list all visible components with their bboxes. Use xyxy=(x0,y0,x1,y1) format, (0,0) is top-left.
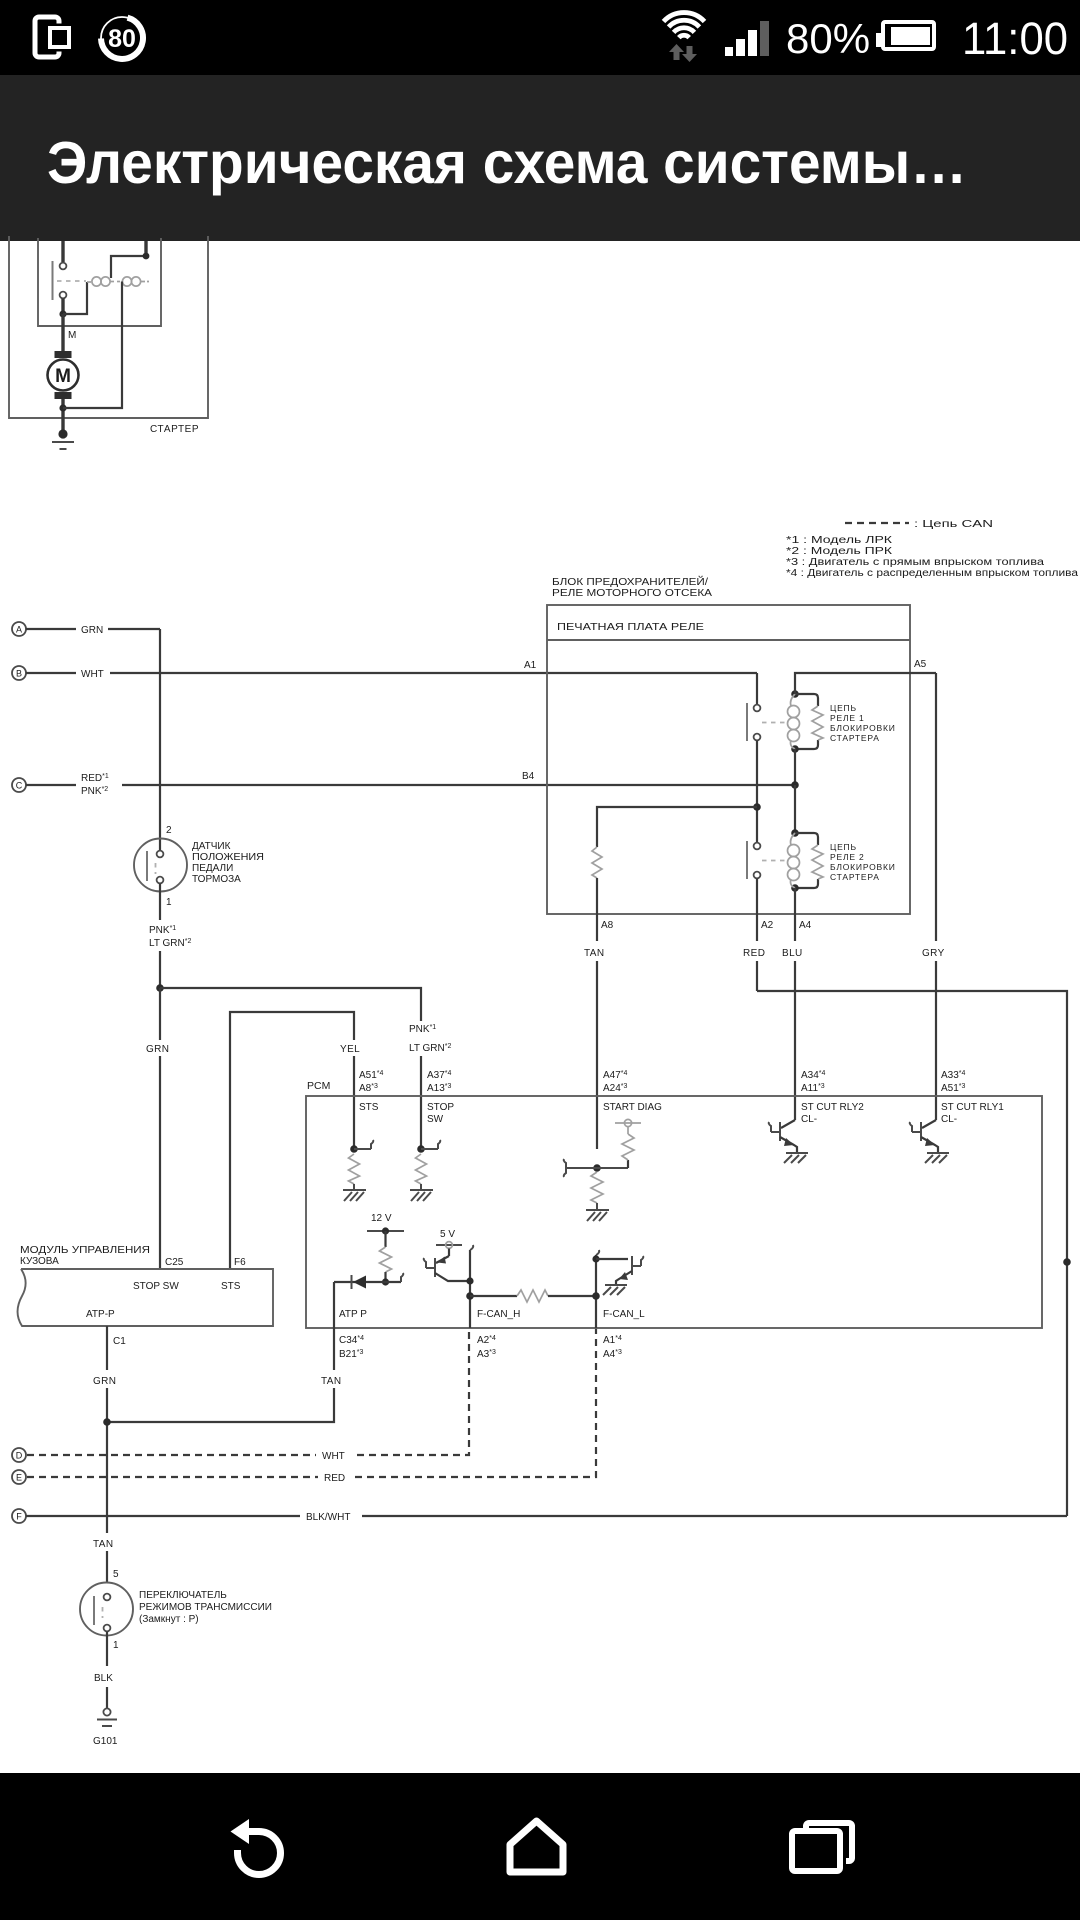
wire RED from A2 xyxy=(756,914,758,941)
range switch label xyxy=(139,1590,272,1625)
starter motor M xyxy=(48,351,79,399)
svg-text:*3 : Двигатель с прямым впрыск: *3 : Двигатель с прямым впрыском топлива xyxy=(786,557,1045,568)
svg-text:RED: RED xyxy=(324,1473,345,1484)
status icon: wifi with arrows xyxy=(664,13,705,38)
wire brake switch out xyxy=(159,884,161,921)
svg-text:5 V: 5 V xyxy=(440,1229,455,1240)
title bar background xyxy=(0,75,1080,241)
connector F xyxy=(12,1509,26,1523)
svg-text:C1: C1 xyxy=(113,1336,126,1347)
svg-text:A4: A4 xyxy=(799,920,812,931)
svg-text:STOP SW: STOP SW xyxy=(133,1281,179,1292)
status bar background xyxy=(0,0,1080,75)
solenoid hold-in coil xyxy=(117,277,149,286)
connector E xyxy=(12,1470,26,1484)
solenoid pull-in coil xyxy=(87,277,114,286)
svg-text:80%: 80% xyxy=(786,15,870,62)
node solenoid output xyxy=(59,310,66,317)
ST CUT RLY2 driver transistor xyxy=(769,1120,808,1163)
nav icon: home xyxy=(510,1821,563,1872)
CAN termination resistor xyxy=(470,1295,517,1297)
node on RED/BLKWHT riser xyxy=(1063,1258,1071,1266)
ground G101 xyxy=(97,1708,117,1726)
svg-text:E: E xyxy=(16,1473,22,1483)
wire TAN from A8 xyxy=(596,914,598,941)
svg-text:WHT: WHT xyxy=(322,1451,345,1462)
svg-text:B: B xyxy=(16,669,22,679)
F-CAN_L driver transistor xyxy=(596,1256,643,1295)
wire F BLK/WHT xyxy=(26,1515,300,1517)
svg-text:F6: F6 xyxy=(234,1257,246,1268)
solenoid contact linkage dashes xyxy=(57,280,86,282)
wire A5 from relay1 coil to GRY xyxy=(795,673,936,694)
svg-text:РЕЛЕ МОТОРНОГО ОТСЕКА: РЕЛЕ МОТОРНОГО ОТСЕКА xyxy=(552,588,712,599)
transmission range switch xyxy=(80,1583,133,1636)
relay box outline xyxy=(547,605,910,914)
5V supply for CAN driver xyxy=(436,1229,462,1256)
svg-text:CL-: CL- xyxy=(801,1114,817,1125)
brake pedal position switch xyxy=(134,839,187,892)
connector B xyxy=(12,666,26,680)
solenoid contact blade xyxy=(52,261,54,300)
svg-text:ПЕРЕКЛЮЧАТЕЛЬ: ПЕРЕКЛЮЧАТЕЛЬ xyxy=(139,1590,227,1601)
brake switch label xyxy=(192,841,264,885)
svg-text:ДАТЧИК: ДАТЧИК xyxy=(192,841,231,852)
svg-text:*1 : Модель ЛРК: *1 : Модель ЛРК xyxy=(786,535,892,546)
svg-text:BLU: BLU xyxy=(782,948,803,959)
status icon: battery xyxy=(876,22,934,49)
starter solenoid inner box xyxy=(38,238,161,326)
resistor A8 pull xyxy=(592,847,602,878)
connector C xyxy=(12,778,26,792)
dashed CAN wire E RED xyxy=(27,1476,318,1478)
relay 2 coil label xyxy=(830,842,896,882)
wire contact to motor node xyxy=(61,299,64,315)
ST CUT RLY1 driver transistor xyxy=(910,1120,949,1163)
wire relay2 coil to A4 pin xyxy=(794,888,796,914)
status icon: signal bars xyxy=(725,21,769,56)
relay 1 coil assembly xyxy=(788,690,824,753)
svg-text:A: A xyxy=(16,625,22,635)
node brake signal split xyxy=(156,984,164,992)
svg-text:2: 2 xyxy=(166,825,172,836)
svg-text:B4: B4 xyxy=(522,771,535,782)
svg-text:C: C xyxy=(16,781,23,791)
svg-text:ТОРМОЗА: ТОРМОЗА xyxy=(192,874,241,885)
svg-text:RED: RED xyxy=(743,948,765,959)
svg-text:TAN: TAN xyxy=(93,1539,113,1550)
svg-text:ST CUT RLY2: ST CUT RLY2 xyxy=(801,1102,864,1113)
svg-text:ATP P: ATP P xyxy=(339,1309,367,1320)
relay 2 contact xyxy=(747,841,789,879)
wire YEL drop to PCM STS xyxy=(353,1056,355,1149)
wire A GRN xyxy=(26,628,76,630)
svg-text:КУЗОВА: КУЗОВА xyxy=(20,1256,59,1267)
wire to node xyxy=(159,951,161,988)
node motor negative xyxy=(59,404,66,411)
svg-text:*2 : Модель ПРК: *2 : Модель ПРК xyxy=(786,546,892,557)
wire GRY from A5 xyxy=(935,673,937,941)
svg-text:STOP: STOP xyxy=(427,1102,454,1113)
wire ST signal from top xyxy=(144,241,147,256)
svg-text:CL-: CL- xyxy=(941,1114,957,1125)
connector A xyxy=(12,622,26,636)
wire relay1 contact down through node to relay2 contact xyxy=(756,741,758,844)
svg-text:A1: A1 xyxy=(524,660,537,671)
svg-text:BLK: BLK xyxy=(94,1673,113,1684)
svg-text:Электрическая схема системы…: Электрическая схема системы… xyxy=(47,130,967,196)
svg-text:1: 1 xyxy=(113,1640,119,1651)
svg-text:ПОЛОЖЕНИЯ: ПОЛОЖЕНИЯ xyxy=(192,852,264,863)
solenoid contact top xyxy=(60,263,67,270)
svg-text:A5: A5 xyxy=(914,659,927,670)
nav icon: back xyxy=(231,1819,281,1874)
svg-text:D: D xyxy=(16,1451,23,1461)
svg-text:РЕЛЕ 2: РЕЛЕ 2 xyxy=(830,852,864,862)
svg-text:M: M xyxy=(68,330,76,341)
svg-text:F-CAN_H: F-CAN_H xyxy=(477,1309,520,1320)
svg-text:БЛОКИРОВКИ: БЛОКИРОВКИ xyxy=(830,723,896,733)
wire ATP P below PCM xyxy=(333,1328,335,1370)
BCM box outline (torn left edge) xyxy=(17,1269,273,1326)
svg-text:WHT: WHT xyxy=(81,669,104,680)
status icon: battery-care circle 80 xyxy=(101,17,143,59)
wire B4 node to relay2 coil xyxy=(794,785,796,833)
wire node to pull-in coil xyxy=(63,282,87,314)
solenoid contact bottom xyxy=(60,292,67,299)
svg-text:ATP-P: ATP-P xyxy=(86,1309,115,1320)
svg-text:M: M xyxy=(55,366,71,387)
svg-text:GRN: GRN xyxy=(81,625,103,636)
12V pull-up with diode for ATP P xyxy=(334,1213,404,1289)
node ATP-P junction xyxy=(103,1418,111,1426)
svg-text:МОДУЛЬ УПРАВЛЕНИЯ: МОДУЛЬ УПРАВЛЕНИЯ xyxy=(20,1245,150,1256)
wire C RED/PNK to relay box B4 xyxy=(26,784,76,786)
wire ATP-P trunk down to range switch xyxy=(106,1422,108,1533)
wire node down GRN xyxy=(159,988,161,1040)
wire motor to ground node xyxy=(61,399,64,433)
svg-text:ЦЕПЬ: ЦЕПЬ xyxy=(830,703,857,713)
wire ATP P pin drop xyxy=(333,1282,335,1328)
svg-text:СТАРТЕР: СТАРТЕР xyxy=(150,424,199,435)
wire ST feed jumper over coils xyxy=(111,256,146,278)
wire coil return to motor negative xyxy=(63,282,122,409)
svg-text:БЛОКИРОВКИ: БЛОКИРОВКИ xyxy=(830,862,896,872)
svg-text:СТАРТЕРА: СТАРТЕРА xyxy=(830,872,880,882)
wire resistor to A8 pin xyxy=(596,878,598,914)
relay 1 coil label xyxy=(830,703,896,743)
F-CAN_H driver transistor xyxy=(424,1256,470,1281)
svg-text:ЦЕПЬ: ЦЕПЬ xyxy=(830,842,857,852)
svg-text:PCM: PCM xyxy=(307,1080,330,1092)
relay 1 contact xyxy=(747,703,789,741)
PCM box outline xyxy=(306,1096,1042,1328)
svg-text:*4 : Двигатель с распределенны: *4 : Двигатель с распределенным впрыском… xyxy=(786,568,1079,579)
svg-text:12 V: 12 V xyxy=(371,1213,392,1224)
relay box divider xyxy=(547,639,910,641)
node ST junction xyxy=(143,253,150,260)
svg-text:F: F xyxy=(16,1512,22,1522)
status icon: phone with overlay square xyxy=(35,17,72,57)
wire B+ feed to solenoid switch xyxy=(61,241,64,262)
wire A1 drop to relay 1 contact xyxy=(756,673,758,704)
svg-text:SW: SW xyxy=(427,1114,444,1125)
legend dashed sample: CAN circuit xyxy=(845,522,909,524)
svg-text:STS: STS xyxy=(221,1281,241,1292)
ground starter xyxy=(52,429,74,449)
wire RED routed right and down to BLK/WHT xyxy=(757,991,1067,1516)
wire relay1 coil to B4 node xyxy=(794,749,796,785)
svg-text:STS: STS xyxy=(359,1102,379,1113)
svg-text:БЛОК ПРЕДОХРАНИТЕЛЕЙ/: БЛОК ПРЕДОХРАНИТЕЛЕЙ/ xyxy=(552,575,708,588)
svg-text:ПЕДАЛИ: ПЕДАЛИ xyxy=(192,863,233,874)
svg-text:: Цепь CAN: : Цепь CAN xyxy=(914,519,993,530)
svg-text:РЕЖИМОВ ТРАНСМИССИИ: РЕЖИМОВ ТРАНСМИССИИ xyxy=(139,1602,272,1613)
START DIAG input network xyxy=(564,1119,641,1221)
svg-text:5: 5 xyxy=(113,1569,119,1580)
svg-text:СТАРТЕРА: СТАРТЕРА xyxy=(830,733,880,743)
svg-text:TAN: TAN xyxy=(584,948,604,959)
connector D xyxy=(12,1448,26,1462)
wire BCM STS link xyxy=(230,1012,354,1269)
starter outer box xyxy=(9,236,208,418)
wire STOP SW drop xyxy=(420,1056,422,1149)
nav bar background xyxy=(0,1773,1080,1920)
wire BCM ATP-P output xyxy=(106,1326,108,1370)
svg-text:80: 80 xyxy=(108,25,136,53)
wire F-CAN_H internal rail xyxy=(469,1250,471,1328)
svg-text:GRN: GRN xyxy=(146,1044,169,1055)
wire relay2 contact to A2 pin xyxy=(756,879,758,915)
svg-text:START DIAG: START DIAG xyxy=(603,1102,662,1113)
svg-text:(Замкнут : P): (Замкнут : P) xyxy=(139,1614,199,1625)
wire BLU from A4 xyxy=(794,914,796,941)
node B4 xyxy=(791,781,799,789)
svg-text:РЕЛЕ 1: РЕЛЕ 1 xyxy=(830,713,864,723)
nav icon: recents xyxy=(792,1823,852,1871)
wire node to motor xyxy=(61,314,64,352)
svg-text:BLK/WHT: BLK/WHT xyxy=(306,1512,350,1523)
svg-text:F-CAN_L: F-CAN_L xyxy=(603,1309,645,1320)
STS input pull-down xyxy=(343,1140,373,1201)
wire F-CAN_L internal rail xyxy=(595,1255,597,1328)
svg-text:GRN: GRN xyxy=(93,1376,116,1387)
svg-text:ПЕЧАТНАЯ ПЛАТА РЕЛЕ: ПЕЧАТНАЯ ПЛАТА РЕЛЕ xyxy=(557,621,704,633)
STOP SW input pull-down xyxy=(410,1140,440,1201)
dashed CAN wire D WHT xyxy=(27,1454,316,1456)
svg-text:TAN: TAN xyxy=(321,1376,341,1387)
wire range switch to ground xyxy=(106,1632,108,1667)
svg-text:A2: A2 xyxy=(761,920,774,931)
relay 2 coil assembly xyxy=(788,829,824,892)
svg-text:YEL: YEL xyxy=(340,1044,360,1055)
wire node to PCM STOP SW xyxy=(160,988,421,1021)
svg-text:GRY: GRY xyxy=(922,948,945,959)
svg-text:A8: A8 xyxy=(601,920,614,931)
svg-text:11:00: 11:00 xyxy=(962,13,1068,64)
svg-text:ST CUT RLY1: ST CUT RLY1 xyxy=(941,1102,1004,1113)
wire GRN down to brake switch xyxy=(159,629,161,851)
wire B WHT to relay box A1 xyxy=(26,672,76,674)
node relay2 contact feed xyxy=(753,803,761,811)
svg-text:G101: G101 xyxy=(93,1736,118,1747)
svg-text:1: 1 xyxy=(166,897,172,908)
svg-text:C25: C25 xyxy=(165,1257,184,1268)
wire node to A8 resistor branch xyxy=(597,807,757,847)
